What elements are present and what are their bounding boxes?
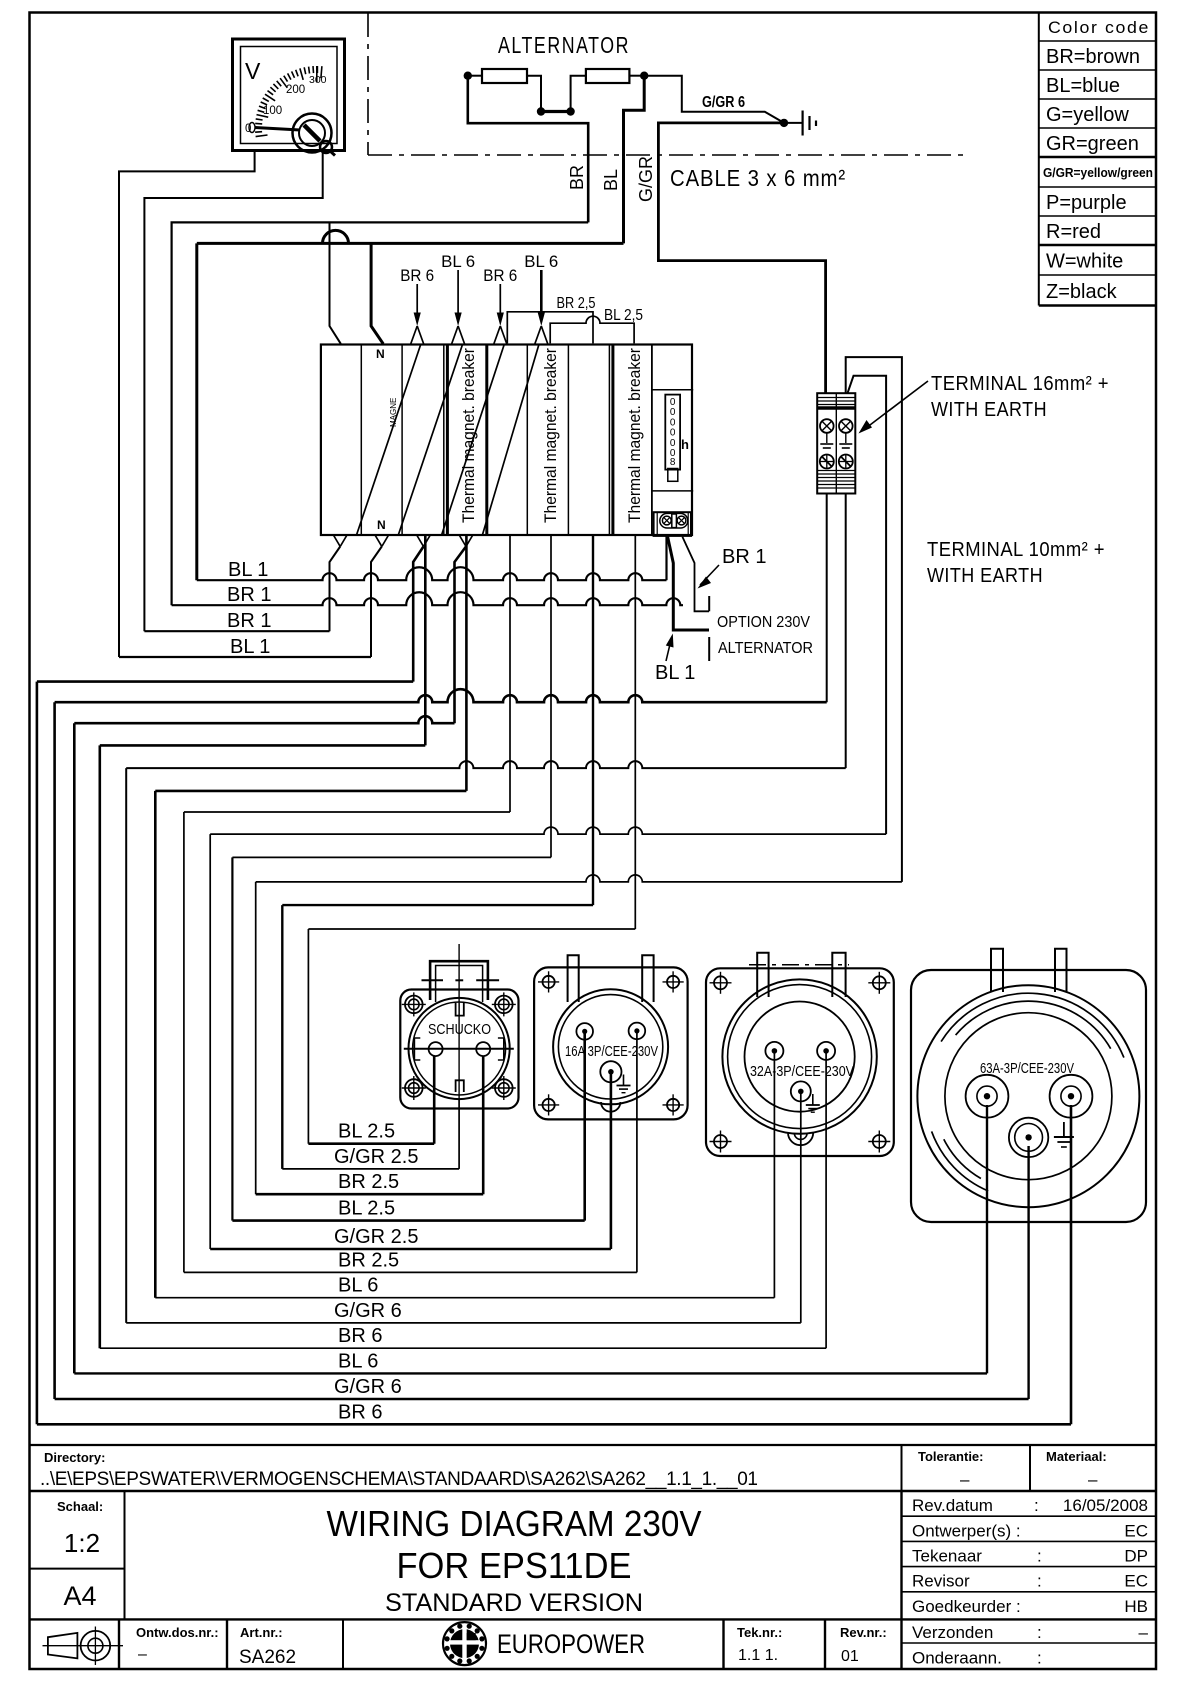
svg-text:R=red: R=red <box>1046 221 1101 243</box>
wire pilot BR1 to option bar <box>682 537 709 612</box>
wire row y745 <box>100 744 426 747</box>
clamp at exit 3 <box>417 536 430 547</box>
logo EUROPOWER <box>443 1622 486 1665</box>
svg-text:BR 6: BR 6 <box>338 1401 382 1423</box>
wire left riser 10 <box>255 882 257 1194</box>
wire socket row BR 2.5 y1194 <box>256 1193 484 1196</box>
svg-text:Thermal magnet. breaker: Thermal magnet. breaker <box>460 347 478 523</box>
wire socket row BL 2.5 y1143 <box>308 1142 434 1145</box>
label TERMINAL 10mm2 <box>927 539 1105 587</box>
svg-text:STANDARD VERSION: STANDARD VERSION <box>385 1589 643 1617</box>
wire breaker exit to row682 <box>413 547 423 682</box>
svg-text::: : <box>1037 1547 1042 1566</box>
socket SCHUKO <box>400 944 518 1109</box>
wire left riser 9 <box>231 857 233 1220</box>
svg-text:–: – <box>1088 1470 1098 1489</box>
dash-dot panel boundary (horizontal) <box>368 154 966 156</box>
wire row y812 <box>184 811 510 813</box>
svg-text:Thermal magnet. breaker: Thermal magnet. breaker <box>626 347 644 523</box>
svg-text:Verzonden: Verzonden <box>912 1623 993 1642</box>
svg-text:Schaal:: Schaal: <box>57 1499 103 1514</box>
wire socket riser 8 <box>800 1091 802 1323</box>
svg-text:1:2: 1:2 <box>64 1528 100 1558</box>
wire socket row BL 6 y1297 <box>155 1297 774 1299</box>
wire socket riser 10 <box>986 1105 988 1373</box>
svg-text:N: N <box>376 347 385 361</box>
connector bar option L <box>708 596 710 611</box>
svg-text:WITH EARTH: WITH EARTH <box>927 565 1043 587</box>
junction dot BL node <box>640 72 648 80</box>
svg-text:ALTERNATOR: ALTERNATOR <box>718 640 813 657</box>
wire socket riser 3 <box>482 1056 485 1194</box>
wire left riser 2 <box>53 702 56 1399</box>
wire row y857 <box>232 856 551 858</box>
wire BL 2,5 elbow <box>550 316 634 343</box>
svg-text:WITH EARTH: WITH EARTH <box>931 399 1047 421</box>
wire socket riser 1 <box>433 1056 436 1144</box>
wire left riser 11 <box>281 905 283 1169</box>
voltmeter V <box>233 39 345 156</box>
svg-text:TERMINAL 16mm² +: TERMINAL 16mm² + <box>931 373 1109 395</box>
wire socket row G/GR 2.5 y1168 <box>282 1168 459 1170</box>
svg-text:BL 6: BL 6 <box>338 1350 378 1372</box>
wire L2 to right dot <box>629 75 644 77</box>
junction dot BR node <box>464 72 472 80</box>
svg-text:BR 2,5: BR 2,5 <box>557 295 596 312</box>
svg-text:CABLE 3 x 6 mm²: CABLE 3 x 6 mm² <box>670 165 846 191</box>
svg-text::: : <box>1034 1496 1039 1515</box>
breaker lever diagonals <box>357 345 539 536</box>
wire row BR1 y605 <box>172 592 683 605</box>
svg-text:BR 6: BR 6 <box>400 266 434 285</box>
svg-text:–: – <box>960 1470 970 1489</box>
wire left-dot to winding L1 <box>468 75 482 77</box>
wire BL 6 entry 2 with arrow <box>524 252 558 344</box>
wire pilot BL1 to option bar <box>668 537 709 630</box>
svg-text:WIRING DIAGRAM 230V: WIRING DIAGRAM 230V <box>327 1503 702 1544</box>
wire socket riser 6 <box>636 1031 638 1272</box>
winding L1 (alternator) <box>482 69 527 83</box>
wire voltmeter-left to BL1 vertical <box>119 151 255 658</box>
pilot socket on breaker <box>654 512 691 536</box>
wire tap to winding L2 <box>571 76 586 112</box>
svg-text:1.1 1.: 1.1 1. <box>738 1647 778 1664</box>
svg-text:0: 0 <box>245 123 251 135</box>
wire socket riser 11 <box>1027 1146 1029 1399</box>
wire left riser 6 <box>154 791 157 1298</box>
wire left riser 7 <box>183 812 185 1272</box>
wire terminal left through <box>826 494 828 703</box>
wire terminal right loop L1 <box>846 357 902 882</box>
svg-text:200: 200 <box>286 84 305 96</box>
wire breaker exit to row905 <box>592 535 594 905</box>
wire socket riser 7 <box>773 1051 775 1298</box>
wire row y723 <box>74 716 454 723</box>
hour counter <box>652 390 693 491</box>
svg-text:BL=blue: BL=blue <box>1046 75 1120 97</box>
wire row y834 <box>210 827 886 834</box>
wire socket row BL 2.5 y1220 <box>232 1219 584 1222</box>
svg-text:HB: HB <box>1124 1597 1148 1616</box>
svg-text:BR 1: BR 1 <box>227 584 271 606</box>
svg-text:ALTERNATOR: ALTERNATOR <box>498 32 630 58</box>
earth symbol <box>803 111 816 136</box>
wire L1 to center tap <box>527 76 541 112</box>
title block <box>30 1445 1157 1669</box>
svg-text:Goedkeurder :: Goedkeurder : <box>912 1597 1021 1616</box>
wire BL bus y243 <box>197 230 624 243</box>
socket 16A CEE <box>534 955 688 1119</box>
svg-text:BR 6: BR 6 <box>483 266 517 285</box>
wire left riser 4 <box>99 745 102 1348</box>
svg-text:BR 1: BR 1 <box>722 546 766 568</box>
svg-text:Ontw.dos.nr.:: Ontw.dos.nr.: <box>136 1625 219 1640</box>
label TERMINAL 16mm2 <box>931 373 1109 421</box>
svg-text:BL 1: BL 1 <box>230 636 270 658</box>
svg-text:Color code: Color code <box>1048 19 1150 37</box>
svg-text:BL 6: BL 6 <box>524 252 558 271</box>
svg-text:8: 8 <box>670 457 676 468</box>
wire breaker exit to row745 <box>424 535 427 745</box>
wire row y791 <box>155 790 466 793</box>
svg-text:Tolerantie:: Tolerantie: <box>918 1449 984 1464</box>
svg-text:–: – <box>1139 1623 1149 1642</box>
wire N-entry 2 (into breaker top) <box>371 243 383 343</box>
svg-text:SA262: SA262 <box>239 1647 296 1668</box>
wire row y929 <box>308 928 635 930</box>
clamp at N exit <box>334 536 347 547</box>
svg-text:EC: EC <box>1124 1572 1148 1591</box>
svg-text:W=white: W=white <box>1046 251 1123 273</box>
wire BR 6 entry with arrow <box>400 266 434 344</box>
svg-text:Rev.datum: Rev.datum <box>912 1496 993 1515</box>
svg-text:300: 300 <box>309 74 327 86</box>
wire row BR1b y631 <box>144 630 329 632</box>
wire terminal right loop L2 <box>848 376 887 834</box>
wire breaker exit to row929 <box>634 535 636 929</box>
wire pilot-left to row580 <box>665 536 667 580</box>
svg-text:BR: BR <box>567 165 587 190</box>
wire left riser 8 <box>209 834 211 1249</box>
junction dot earth node <box>780 119 788 127</box>
wire row y702 <box>55 689 827 702</box>
breaker block outline <box>321 345 692 536</box>
svg-text:BL 1: BL 1 <box>655 662 695 684</box>
svg-text:V: V <box>245 58 261 84</box>
svg-text:Revisor: Revisor <box>912 1572 970 1591</box>
label BL 1 with arrow <box>655 634 695 685</box>
svg-text:BR 6: BR 6 <box>338 1325 382 1347</box>
svg-text:Onderaann.: Onderaann. <box>912 1649 1002 1668</box>
terminal leader arrow <box>859 381 929 434</box>
clamp at exit 4 <box>460 536 473 547</box>
svg-text:01: 01 <box>841 1648 859 1665</box>
wire left riser 5 <box>125 768 127 1323</box>
wire BL feed <box>624 76 645 244</box>
svg-text:Rev.nr.:: Rev.nr.: <box>840 1625 887 1640</box>
wire socket row BR 2.5 y1272 <box>184 1271 637 1273</box>
svg-text:G/GR: G/GR <box>636 156 656 202</box>
wire BR bus y222 <box>172 222 589 605</box>
svg-text:63A-3P/CEE-230V: 63A-3P/CEE-230V <box>980 1061 1074 1077</box>
wire BL vertical to row580 <box>195 243 198 580</box>
wire socket row BL 6 y1373 <box>74 1372 987 1374</box>
svg-text:DP: DP <box>1124 1547 1148 1566</box>
wire socket row G/GR 2.5 y1249 <box>210 1248 611 1251</box>
svg-text:32A-3P/CEE-230V: 32A-3P/CEE-230V <box>750 1064 854 1080</box>
wire breaker exit to row723 <box>455 547 467 724</box>
connector bar option N <box>708 637 710 661</box>
svg-text:BL 2.5: BL 2.5 <box>338 1198 395 1220</box>
wire socket row G/GR 6 y1322 <box>126 1322 801 1324</box>
svg-text:BL: BL <box>601 169 621 191</box>
svg-text:G/GR 6: G/GR 6 <box>334 1300 402 1322</box>
svg-text:Materiaal:: Materiaal: <box>1046 1449 1107 1464</box>
svg-text::: : <box>1037 1649 1042 1668</box>
svg-text:16/05/2008: 16/05/2008 <box>1063 1496 1148 1515</box>
wire BR 6 entry 2 with arrow <box>483 266 517 344</box>
wire row y905 <box>282 904 593 906</box>
svg-text:BR 2.5: BR 2.5 <box>338 1171 399 1193</box>
wire socket riser 5 <box>610 1074 613 1249</box>
wire socket riser 12 <box>1070 1105 1073 1424</box>
svg-text:EUROPOWER: EUROPOWER <box>497 1629 645 1659</box>
svg-text:A4: A4 <box>63 1581 96 1611</box>
svg-text:OPTION 230V: OPTION 230V <box>717 614 810 631</box>
wire row BL1 y580 <box>197 567 667 580</box>
svg-text:16A 3P/CEE-230V: 16A 3P/CEE-230V <box>565 1044 658 1060</box>
svg-text:G/GR=yellow/green: G/GR=yellow/green <box>1043 165 1153 180</box>
wire left riser 1 <box>36 682 39 1425</box>
svg-text:TERMINAL 10mm² +: TERMINAL 10mm² + <box>927 539 1105 561</box>
wire row y682 <box>37 680 413 683</box>
wire socket riser 9 <box>825 1051 827 1348</box>
wire G/GR 6 to earth <box>644 76 802 123</box>
wire BL 6 entry with arrow <box>441 252 475 344</box>
socket 63A CEE <box>911 949 1146 1222</box>
wire BR 2,5 elbow <box>507 312 593 344</box>
wire socket row G/GR 6 y1399 <box>55 1398 1029 1400</box>
wire socket row BR 6 y1348 <box>100 1347 826 1349</box>
color code table <box>1039 13 1157 306</box>
wire breaker exit to row857 <box>550 535 552 857</box>
label BR 1 with arrow <box>698 546 767 589</box>
svg-text:BL 1: BL 1 <box>228 559 268 581</box>
svg-text:G/GR 2.5: G/GR 2.5 <box>334 1226 418 1248</box>
svg-text:P=purple: P=purple <box>1046 192 1127 214</box>
svg-text:BR 1: BR 1 <box>227 610 271 632</box>
svg-text:BL 2,5: BL 2,5 <box>604 307 643 324</box>
projection symbol <box>43 1627 124 1666</box>
wire breaker exit to row657 <box>371 547 382 658</box>
winding L2 (alternator) <box>586 69 630 83</box>
svg-text:Directory:: Directory: <box>44 1450 105 1465</box>
terminal block 16mm <box>817 393 855 493</box>
svg-text::: : <box>1037 1572 1042 1591</box>
wire G/GR return to terminal <box>658 123 825 393</box>
svg-text:..\E\EPS\EPSWATER\VERMOGENSCHE: ..\E\EPS\EPSWATER\VERMOGENSCHEMA\STANDAA… <box>40 1469 758 1490</box>
clamp at exit 2 <box>375 536 388 547</box>
wire row y882 <box>256 875 902 882</box>
svg-text:BR 2.5: BR 2.5 <box>338 1249 399 1271</box>
svg-text:Art.nr.:: Art.nr.: <box>240 1625 283 1640</box>
svg-text:–: – <box>138 1646 147 1663</box>
svg-text:Ontwerper(s) :: Ontwerper(s) : <box>912 1522 1021 1541</box>
wire breaker exit to row631 <box>330 547 341 632</box>
svg-text:Tekenaar: Tekenaar <box>912 1547 982 1566</box>
center tap bar <box>541 110 571 113</box>
wire left riser 12 <box>307 929 309 1144</box>
svg-text:BL 6: BL 6 <box>338 1275 378 1297</box>
wire BR feed <box>468 76 588 223</box>
svg-text:BR=brown: BR=brown <box>1046 46 1140 68</box>
svg-text:G/GR 6: G/GR 6 <box>702 94 745 111</box>
wire socket riser 4 <box>583 1031 586 1221</box>
wire socket row BR 6 y1424 <box>37 1423 1071 1426</box>
svg-text:FOR EPS11DE: FOR EPS11DE <box>397 1545 632 1586</box>
svg-text:BL 6: BL 6 <box>441 252 475 271</box>
dash-dot panel boundary (vertical) <box>367 13 369 155</box>
wire socket riser 2 <box>458 1100 460 1169</box>
svg-text:BL 2.5: BL 2.5 <box>338 1121 395 1143</box>
svg-text:h: h <box>681 437 689 452</box>
wire row y768 <box>126 761 846 768</box>
svg-text:G/GR 2.5: G/GR 2.5 <box>334 1146 418 1168</box>
junction dot tap-left <box>537 107 545 115</box>
svg-text:MAGNE: MAGNE <box>389 398 398 427</box>
svg-text:Z=black: Z=black <box>1046 281 1118 303</box>
svg-text:Tek.nr.:: Tek.nr.: <box>737 1625 782 1640</box>
wire N-entry left (into breaker top) <box>330 222 341 343</box>
wire voltmeter-right to BR1 vertical <box>144 151 322 632</box>
wire breaker exit to row812 <box>509 535 511 812</box>
svg-text:EC: EC <box>1124 1522 1148 1541</box>
socket 32A CEE <box>706 953 894 1156</box>
wire terminal right through <box>845 494 847 769</box>
svg-text::: : <box>1037 1623 1042 1642</box>
svg-text:Thermal magnet. breaker: Thermal magnet. breaker <box>542 347 560 523</box>
svg-text:G=yellow: G=yellow <box>1046 104 1129 126</box>
wire breaker exit to row791 <box>465 535 468 791</box>
svg-text:N: N <box>377 518 386 532</box>
junction dot tap-right <box>566 107 574 115</box>
wire left riser 3 <box>73 723 76 1373</box>
wire row BL1b y657 <box>119 656 371 658</box>
svg-text:GR=green: GR=green <box>1046 133 1139 155</box>
svg-text:G/GR 6: G/GR 6 <box>334 1376 402 1398</box>
svg-text:100: 100 <box>263 105 282 117</box>
